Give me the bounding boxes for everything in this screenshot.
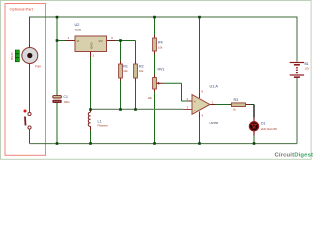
svg-text:LM358: LM358 <box>210 121 219 125</box>
svg-text:R3: R3 <box>234 98 239 102</box>
svg-text:R2: R2 <box>139 65 144 69</box>
battery B1 <box>290 62 310 78</box>
wire bottom rail <box>30 143 298 145</box>
node rail C1 <box>56 142 59 145</box>
svg-text:U2: U2 <box>75 23 80 27</box>
node VI pin <box>56 39 59 42</box>
svg-text:10k: 10k <box>148 96 153 100</box>
wire LED to bottom rail <box>253 131 255 144</box>
node top rail opamp V+ <box>198 16 201 19</box>
inductor L1 filament <box>88 112 108 127</box>
wire sense node horizontal <box>91 108 184 110</box>
wire top rail <box>30 16 298 18</box>
border frame <box>1 1 312 160</box>
svg-text:100u: 100u <box>64 100 70 104</box>
regulator U2 7805 <box>68 23 114 58</box>
svg-text:B1: B1 <box>305 62 309 66</box>
wire R4 RV1 chain vertical <box>154 17 156 144</box>
resistor R4 <box>153 35 163 54</box>
wire switch to bottom rail <box>29 129 31 143</box>
wire U2 GND drop <box>90 52 92 110</box>
node sense R2 <box>134 108 137 111</box>
svg-text:D1: D1 <box>261 121 265 125</box>
node top rail R4 <box>153 16 156 19</box>
resistor R1 <box>119 61 129 81</box>
resistor R2 <box>134 61 144 81</box>
wire C1 / U2 VI vertical <box>56 17 58 144</box>
potentiometer RV1 <box>148 68 165 100</box>
node top rail C1 <box>56 16 59 19</box>
wire fan top drop <box>29 17 31 48</box>
switch SW1 <box>24 110 32 130</box>
wire U2 VI pin <box>57 40 75 42</box>
node rail L1 <box>89 142 92 145</box>
CircuitDigest logo <box>275 152 314 158</box>
resistor R3 <box>232 98 246 111</box>
svg-text:Fan: Fan <box>35 65 41 69</box>
wire R2 vertical <box>135 41 137 110</box>
svg-text:7805: 7805 <box>75 28 82 32</box>
wire RV1 wiper route <box>157 83 188 101</box>
wire L1 top pin <box>90 110 92 113</box>
svg-text:BUZ1: BUZ1 <box>10 52 14 60</box>
svg-text:C1: C1 <box>64 95 68 99</box>
wire fan bottom to switch <box>29 64 31 113</box>
LED D1 <box>249 121 277 131</box>
svg-text:VI: VI <box>77 39 80 43</box>
wire R1 vertical <box>120 41 122 110</box>
svg-text:Optional Part: Optional Part <box>10 6 34 11</box>
node VO R1 <box>119 39 122 42</box>
node rail LED <box>253 142 256 145</box>
node rail RV1 <box>153 142 156 145</box>
svg-text:12V: 12V <box>305 67 310 71</box>
wire R3 to LED corner <box>246 105 255 122</box>
capacitor C1 <box>53 95 70 104</box>
fan M1 <box>10 48 41 69</box>
node sense L1 <box>89 108 92 111</box>
node sense R1 <box>119 108 122 111</box>
svg-text:R1: R1 <box>123 65 128 69</box>
svg-text:Filament: Filament <box>98 123 109 127</box>
svg-text:GND: GND <box>90 43 94 49</box>
wire op-amp minus pin <box>183 109 192 111</box>
wire battery drop <box>296 17 298 144</box>
svg-text:U1:A: U1:A <box>210 84 219 88</box>
svg-text:10k: 10k <box>123 69 128 73</box>
wire op-amp V+ drop <box>199 17 201 98</box>
wire op-amp V- drop <box>199 112 201 144</box>
node rail opamp V- <box>198 142 201 145</box>
wire op-amp plus pin <box>187 100 192 102</box>
svg-text:10k: 10k <box>158 45 163 49</box>
svg-text:10k: 10k <box>139 69 144 73</box>
op-amp U1:A <box>187 84 219 125</box>
svg-text:CírcuitDigest: CírcuitDigest <box>275 152 314 158</box>
svg-text:LED-YELLOW: LED-YELLOW <box>261 128 278 131</box>
wire U2 VO pin and 5V feed <box>107 40 136 42</box>
wire L1 bottom <box>90 126 92 143</box>
wire op-amp output to R3 <box>210 104 232 106</box>
optional part dashed box <box>5 4 46 156</box>
svg-text:RV1: RV1 <box>158 68 165 72</box>
svg-text:R4: R4 <box>158 41 163 45</box>
svg-text:L1: L1 <box>98 119 102 123</box>
